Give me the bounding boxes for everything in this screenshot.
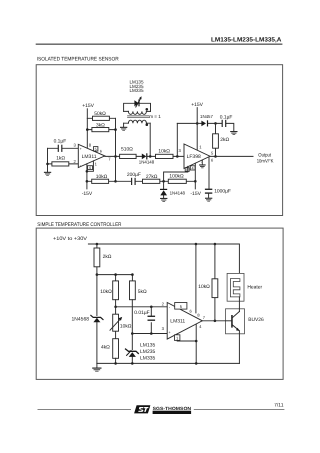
capacitor 1000uF bbox=[205, 189, 212, 190]
transformer primary dot bbox=[146, 108, 149, 111]
junction 10k base bbox=[214, 320, 217, 323]
zener 1N4568 bbox=[96, 275, 98, 364]
svg-text:m = 1: m = 1 bbox=[149, 114, 161, 119]
svg-text:LM335: LM335 bbox=[130, 88, 144, 93]
svg-text:1N4568: 1N4568 bbox=[72, 317, 90, 323]
resistor 50k bbox=[87, 117, 115, 119]
junction pin1 bbox=[86, 170, 89, 173]
svg-text:2kΩ: 2kΩ bbox=[220, 137, 229, 143]
svg-text:SGS-THOMSON: SGS-THOMSON bbox=[153, 406, 192, 411]
schematic 1 frame bbox=[36, 65, 282, 216]
svg-text:7/11: 7/11 bbox=[274, 402, 284, 408]
svg-text:+10V to +30V: +10V to +30V bbox=[53, 236, 88, 242]
ground input bbox=[44, 172, 51, 173]
junction 1k left bbox=[46, 163, 49, 166]
svg-text:1kΩ: 1kΩ bbox=[56, 156, 65, 162]
junction diode-10k bbox=[149, 155, 152, 158]
resistor 10k divider bbox=[113, 281, 119, 300]
svg-text:LM311: LM311 bbox=[82, 154, 97, 160]
potentiometer 10k bbox=[115, 307, 117, 339]
svg-text:10kΩ: 10kΩ bbox=[100, 289, 112, 295]
op-amp U2 LF398 bbox=[184, 144, 210, 169]
header rule bbox=[36, 44, 283, 45]
capacitor 0.01uF bbox=[150, 307, 152, 334]
wire pin8 path bbox=[164, 166, 188, 181]
wire pin1 LM311 bbox=[87, 161, 94, 171]
pin 7 ground LF398 bbox=[201, 160, 203, 164]
sensor LM135 diode bbox=[134, 100, 138, 106]
junction 27k-100k bbox=[162, 180, 165, 183]
svg-text:10kΩ: 10kΩ bbox=[198, 284, 210, 290]
resistor 27k bbox=[143, 179, 160, 183]
pin 4 box LF398 bbox=[190, 166, 195, 170]
transistor BUV26 symbol bbox=[231, 315, 233, 328]
capacitor 0.1uF bbox=[48, 147, 79, 149]
wire 10k bottom to pin2 row bbox=[116, 300, 168, 307]
junction pin2 row pot bbox=[114, 306, 117, 309]
resistor 4k bbox=[113, 339, 119, 359]
footer right rule bbox=[194, 408, 285, 411]
svg-text:ISOLATED TEMPERATURE SENSOR: ISOLATED TEMPERATURE SENSOR bbox=[37, 56, 119, 62]
transformer primary bbox=[124, 110, 151, 112]
svg-text:4: 4 bbox=[192, 167, 194, 171]
pin 8 box LF398 bbox=[185, 168, 189, 172]
ST logo parallelogram bbox=[134, 405, 150, 413]
svg-text:1000µF: 1000µF bbox=[214, 189, 231, 195]
svg-text:Output: Output bbox=[258, 153, 271, 159]
op-amp U3 LM311 bbox=[167, 303, 202, 340]
transistor Q1 BUV26 box bbox=[226, 309, 245, 334]
wire +15V left rail bbox=[86, 109, 88, 148]
wire pin4 LM311 down bbox=[86, 164, 88, 189]
wire bottom rail bbox=[97, 362, 240, 364]
junction feedback node bbox=[114, 180, 117, 183]
svg-text:4: 4 bbox=[89, 166, 91, 170]
wire input node vertical bbox=[176, 123, 178, 156]
junction 2k bottom bbox=[96, 273, 99, 276]
junction rail pin8 bbox=[195, 243, 198, 246]
svg-text:1N4148: 1N4148 bbox=[170, 191, 186, 196]
sensor LM135 diode s2 bbox=[131, 334, 133, 364]
wire 5k bottom down bbox=[131, 300, 133, 334]
junction 4k bottom bbox=[114, 362, 117, 365]
wire output row bbox=[105, 155, 184, 157]
svg-text:-15V: -15V bbox=[190, 191, 201, 197]
ground bottom rail bbox=[96, 363, 98, 367]
resistor 5k bbox=[130, 281, 136, 300]
wire secondary right down bbox=[149, 123, 151, 156]
schematic 2 frame bbox=[36, 228, 283, 379]
junction diode-cap bbox=[214, 122, 217, 125]
ground D2 bbox=[160, 198, 167, 199]
resistor 2k bbox=[96, 244, 98, 275]
resistor 10k base bbox=[214, 244, 216, 321]
svg-text:10mV/°K: 10mV/°K bbox=[257, 158, 274, 164]
svg-text:0.01µF: 0.01µF bbox=[134, 310, 149, 316]
svg-text:LM311: LM311 bbox=[170, 319, 185, 325]
resistor 10k feedback bbox=[92, 179, 109, 183]
resistor 2k bbox=[215, 123, 217, 156]
wire +15V right rail bbox=[196, 108, 198, 151]
svg-text:+: + bbox=[169, 331, 171, 335]
sensor arrow bbox=[136, 98, 141, 107]
svg-text:5: 5 bbox=[95, 148, 97, 152]
wire pin8 s2 bbox=[195, 244, 197, 313]
wire pin4 s2 bbox=[195, 325, 197, 364]
resistor 10k bbox=[156, 154, 174, 158]
svg-text:LM135: LM135 bbox=[140, 342, 156, 348]
svg-text:SIMPLE TEMPERATURE CONTROLLER: SIMPLE TEMPERATURE CONTROLLER bbox=[37, 222, 121, 228]
svg-text:100kΩ: 100kΩ bbox=[169, 173, 184, 179]
svg-text:510Ω: 510Ω bbox=[121, 146, 133, 152]
ground cap right bbox=[230, 131, 237, 132]
pin 4 box LM311 bbox=[88, 166, 93, 170]
pin 5 box bbox=[94, 147, 98, 152]
heater element bbox=[227, 273, 244, 301]
transformer secondary bbox=[124, 122, 151, 124]
diode D1 1N4148 bbox=[142, 154, 147, 160]
svg-text:10kΩ: 10kΩ bbox=[158, 148, 170, 154]
resistor 510 bbox=[120, 154, 137, 158]
svg-text:2kΩ: 2kΩ bbox=[103, 254, 112, 260]
svg-text:5kΩ: 5kΩ bbox=[138, 289, 147, 295]
junction cap bottom bbox=[150, 332, 153, 335]
junction pin4 rail s2 bbox=[195, 362, 198, 365]
junction 5k top bbox=[131, 273, 134, 276]
diode 1N457 bbox=[201, 121, 206, 127]
junction rail 2k bbox=[96, 243, 99, 246]
wire input left vertical bbox=[47, 148, 49, 171]
junction 3k left bbox=[86, 128, 89, 131]
svg-text:LM135-LM235-LM335,A: LM135-LM235-LM335,A bbox=[211, 36, 282, 43]
junction sensor bottom bbox=[131, 362, 134, 365]
op-amp U1 LM311 bbox=[78, 144, 105, 167]
diode D2 1N4148 vertical bbox=[163, 181, 165, 197]
wire sensor loop top bbox=[124, 103, 151, 111]
junction pin4 100k bbox=[194, 180, 197, 183]
wire diode row bbox=[177, 123, 234, 130]
svg-text:0.1µF: 0.1µF bbox=[220, 114, 233, 120]
ground transformer bbox=[120, 127, 127, 128]
svg-text:10kΩ: 10kΩ bbox=[120, 324, 132, 330]
wire output right bbox=[210, 155, 253, 157]
wire secondary left to ground bbox=[123, 123, 125, 126]
wire pin6 down bbox=[208, 157, 210, 188]
resistor 3k bbox=[87, 129, 115, 131]
svg-text:LM335: LM335 bbox=[140, 356, 156, 362]
junction output node bbox=[114, 155, 117, 158]
junction 2k output bbox=[214, 155, 217, 158]
svg-text:+: + bbox=[80, 147, 82, 151]
junction 3k right bbox=[114, 128, 117, 131]
svg-text:LM235: LM235 bbox=[140, 349, 156, 355]
wire top rail bbox=[88, 244, 239, 279]
junction rail 10k bbox=[214, 243, 217, 246]
capacitor 0.1uF right bbox=[222, 120, 223, 127]
wire pin4 down bbox=[194, 163, 196, 189]
wire feedback row bbox=[87, 180, 195, 182]
junction pin1 pin4 s2 bbox=[195, 340, 198, 343]
pin 5 box s2 bbox=[175, 303, 187, 310]
svg-text:1N4148: 1N4148 bbox=[139, 160, 155, 165]
wire pin3 row bbox=[132, 333, 167, 335]
junction 10k top bbox=[114, 273, 117, 276]
capacitor 200uF bbox=[131, 178, 132, 185]
wire reference row bbox=[97, 275, 132, 281]
svg-text:-15V: -15V bbox=[82, 191, 93, 197]
svg-text:0.1µF: 0.1µF bbox=[54, 139, 67, 145]
pin 1 box s2 bbox=[177, 334, 196, 341]
svg-text:Heater: Heater bbox=[247, 284, 262, 290]
svg-text:200µF: 200µF bbox=[127, 172, 141, 178]
MICROELECTRONICS bar bbox=[153, 411, 192, 414]
svg-text:4kΩ: 4kΩ bbox=[101, 345, 110, 351]
junction LF398 input bbox=[176, 155, 179, 158]
junction cap top bbox=[150, 306, 153, 309]
svg-text:+15V: +15V bbox=[82, 103, 94, 109]
wire output row s2 bbox=[202, 320, 225, 322]
resistor 1k bbox=[48, 163, 79, 165]
resistor 100k bbox=[168, 179, 186, 183]
ground 1000uF bbox=[205, 198, 212, 199]
svg-text:BUV26: BUV26 bbox=[248, 317, 264, 323]
transformer core bbox=[128, 116, 150, 118]
junction pin3 row bbox=[131, 332, 134, 335]
svg-text:6: 6 bbox=[100, 150, 102, 154]
footer left rule bbox=[38, 408, 132, 411]
wire heater to collector bbox=[238, 297, 240, 309]
wire mid vertical bbox=[115, 118, 117, 181]
svg-text:LF398: LF398 bbox=[187, 154, 201, 160]
svg-text:1N457: 1N457 bbox=[200, 114, 213, 119]
transformer secondary dot bbox=[146, 123, 149, 126]
junction +15V diode row bbox=[196, 122, 199, 125]
junction 10k left bbox=[86, 180, 89, 183]
svg-text:MICROELECTRONICS: MICROELECTRONICS bbox=[154, 411, 190, 414]
